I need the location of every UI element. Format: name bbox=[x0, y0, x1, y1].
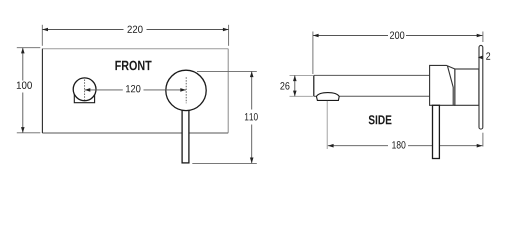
label 100 bbox=[17, 81, 32, 88]
label FRONT bbox=[115, 61, 151, 71]
label 110 bbox=[245, 113, 258, 120]
label 220 bbox=[127, 26, 142, 33]
arrow 220 right bbox=[223, 28, 229, 32]
aerator dome bbox=[316, 93, 339, 101]
wire: extension line 110 top bbox=[197, 70, 257, 72]
spout tip edge bbox=[313, 75, 315, 96]
dimension 100 line bbox=[22, 48, 24, 81]
spout outlet square front bbox=[74, 86, 94, 103]
wire: extension line 100 top bbox=[17, 47, 41, 49]
label 2 bbox=[486, 52, 490, 59]
wall plate side (capsule) bbox=[479, 45, 483, 129]
dimension 120 line bbox=[85, 89, 123, 91]
spout side top edge bbox=[314, 74, 430, 76]
wire: extension line 200 right bbox=[482, 32, 484, 43]
label 26 bbox=[280, 82, 289, 89]
arrow 220 left bbox=[42, 28, 48, 32]
spout outlet circle front bbox=[73, 78, 96, 101]
arrow 180 left bbox=[328, 144, 334, 148]
dimension 180 line bbox=[328, 145, 388, 147]
mixer body block side bbox=[430, 65, 455, 105]
arrow 100 bottom bbox=[21, 127, 25, 133]
body divider diagonal bbox=[447, 66, 453, 106]
arrow 26 top bbox=[293, 75, 297, 81]
backplate rectangle front bbox=[42, 49, 228, 133]
wire: extension line 26 top bbox=[290, 74, 313, 76]
wire: extension line 100 bottom bbox=[17, 132, 41, 134]
cartridge collar side bbox=[455, 69, 479, 105]
dimension 26 line bbox=[294, 75, 296, 96]
wire: extension line 220 left bbox=[41, 25, 43, 46]
centerline big circle bbox=[185, 77, 187, 103]
dimension 110 line bbox=[251, 71, 253, 109]
arrow 110 top bbox=[250, 71, 254, 77]
arrow 120 left bbox=[85, 88, 91, 92]
dimension 200 line bbox=[313, 35, 388, 37]
arrow 200 left bbox=[313, 34, 319, 38]
wire: extension line 26 bottom bbox=[290, 95, 313, 97]
wire: extension line 180 right bbox=[482, 133, 484, 147]
centerline small circle bbox=[84, 80, 86, 100]
dimension 220 line bbox=[42, 29, 123, 31]
mixer body circle front bbox=[166, 70, 206, 110]
arrow 26 bottom bbox=[293, 91, 297, 97]
arrow 100 top bbox=[21, 48, 25, 54]
spout side bottom edge bbox=[314, 95, 317, 97]
wire: extension line 200 left bbox=[312, 32, 314, 75]
handle lever side bbox=[433, 105, 440, 158]
label 180 bbox=[392, 141, 405, 148]
arrow 110 bottom bbox=[250, 158, 254, 164]
handle lever front bbox=[182, 100, 189, 163]
wire: aerator centre extension line bbox=[326, 101, 328, 149]
label 200 bbox=[390, 31, 404, 38]
arrow 180 right bbox=[477, 144, 483, 148]
arrow plate thickness 2 bbox=[478, 56, 483, 60]
wire: extension line 110 bottom bbox=[192, 162, 256, 164]
arrow 200 right bbox=[477, 34, 483, 38]
label SIDE bbox=[369, 115, 392, 124]
wire: extension line 220 right bbox=[228, 25, 230, 46]
arrow 120 right bbox=[180, 88, 186, 92]
label 120 bbox=[126, 85, 140, 92]
